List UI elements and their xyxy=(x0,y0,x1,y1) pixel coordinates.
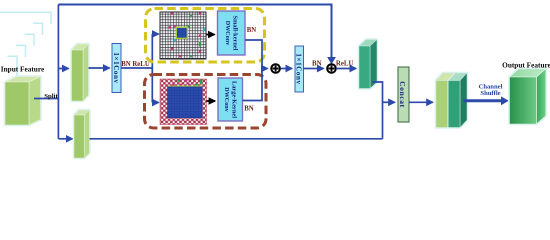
input feature cuboid xyxy=(5,77,41,126)
staircase ghost outlines top-left xyxy=(0,12,51,79)
wire split to lower cuboid (bottom rail) xyxy=(58,138,72,140)
small-kernel feature map grid xyxy=(160,12,206,59)
adder1 circle-plus xyxy=(271,64,280,73)
wire top skip connection xyxy=(58,5,331,58)
svg-text:BN: BN xyxy=(312,60,322,67)
dashed yellow box (small-kernel branch) xyxy=(146,9,265,63)
concat box xyxy=(398,67,409,122)
conv1x1 box no.1 xyxy=(112,44,121,93)
wire middle cuboid down to concat rail xyxy=(372,82,383,139)
svg-text:Split: Split xyxy=(44,93,58,100)
adder2 circle-plus xyxy=(327,64,336,73)
halo glow grouped cuboid xyxy=(436,73,467,128)
halo glow upper cuboid xyxy=(72,44,89,101)
large kernel blue square xyxy=(168,86,203,118)
lower branch cuboid xyxy=(74,110,90,158)
svg-text:DWConv: DWConv xyxy=(223,87,229,112)
wire small DWConv output down to adder1 xyxy=(245,40,262,69)
wire adder2 to middle cuboid xyxy=(336,68,356,70)
black arrow small grid to DWConv box xyxy=(206,34,215,36)
wire large DWConv output up to adder1 xyxy=(243,69,263,101)
wire arrow into small-kernel grid xyxy=(152,33,158,35)
svg-text:Input Feature: Input Feature xyxy=(1,65,45,74)
wire branch vertical xyxy=(151,34,153,103)
dashed brown box (large-kernel branch) xyxy=(145,75,267,129)
halo glow output cuboid xyxy=(510,69,546,124)
svg-text:1×1Conv: 1×1Conv xyxy=(295,53,303,84)
black arrow large grid to DWConv box xyxy=(207,100,216,102)
svg-text:BN: BN xyxy=(247,27,257,34)
conv1x1 box no.2 xyxy=(295,46,304,92)
arrowhead skip into adder2 xyxy=(327,57,336,64)
large-kernel feature map grid (checkerboard) xyxy=(160,79,207,125)
svg-text:Large-Kernel: Large-Kernel xyxy=(231,81,238,118)
small-kernel DWConv box xyxy=(218,11,246,55)
wire input to split junction xyxy=(34,98,58,100)
large-kernel DWConv box xyxy=(218,78,243,121)
svg-text:BN ReLU: BN ReLU xyxy=(121,61,150,68)
wire arrow into large-kernel grid xyxy=(152,102,158,104)
wire adder1 to conv1x1 no.2 xyxy=(281,68,293,70)
output feature cuboid xyxy=(510,69,546,124)
small 3x3 kernel highlight xyxy=(176,27,187,38)
thick channel shuffle arrow xyxy=(464,99,502,102)
wire upper cuboid to 1x1 conv xyxy=(89,67,110,69)
halo glow lower cuboid xyxy=(74,110,90,158)
svg-text:DWConv: DWConv xyxy=(224,21,230,46)
svg-text:1×1Conv: 1×1Conv xyxy=(112,52,120,83)
wire lower cuboid along bottom to concat rail xyxy=(90,138,383,140)
wire split to upper cuboid xyxy=(58,68,68,70)
halo glow middle cuboid xyxy=(359,40,377,89)
colored cells on top ring of large grid xyxy=(172,79,202,86)
upper branch cuboid xyxy=(72,44,89,101)
wire concat to grouped cuboid xyxy=(409,101,433,103)
wire arrow into concat xyxy=(383,101,395,103)
wire main vertical split rail xyxy=(57,5,59,139)
halo glow input cuboid xyxy=(5,77,41,126)
svg-text:Shuffle: Shuffle xyxy=(480,90,500,97)
svg-text:BN: BN xyxy=(244,106,254,113)
wire into adder1 xyxy=(262,68,268,70)
svg-text:Small-kernel: Small-kernel xyxy=(232,16,239,51)
colored cells on small grid xyxy=(169,12,206,57)
wire conv1 to branch junction xyxy=(121,67,152,69)
svg-text:ReLU: ReLU xyxy=(336,60,354,67)
wire conv2 to adder2 xyxy=(304,68,324,70)
svg-text:Concat: Concat xyxy=(398,81,407,108)
lime highlight on top edge of large kernel xyxy=(168,85,203,87)
grouped double cuboid xyxy=(436,73,467,128)
middle teal cuboid xyxy=(359,40,377,89)
